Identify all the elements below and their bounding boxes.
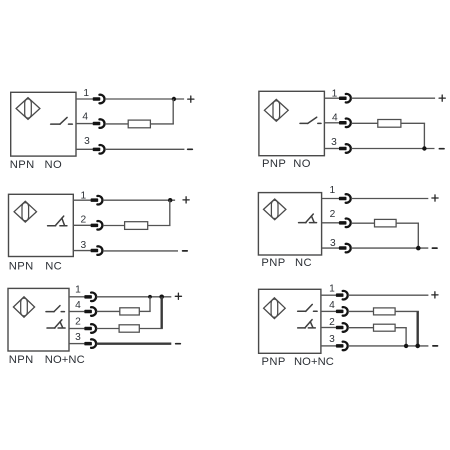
sensor symbol U3 (diamond with lens) bbox=[14, 201, 36, 222]
- supply terminal (D4) bbox=[432, 247, 437, 249]
wire dropper to node J4 bbox=[417, 223, 419, 248]
connector pin 2 (U3) bbox=[91, 221, 103, 230]
connector pin 3 (U5) bbox=[84, 339, 96, 348]
connector pin 4 (U2) bbox=[339, 119, 351, 128]
sensor symbol U5 (diamond with lens) bbox=[13, 297, 34, 317]
wire riser RL5a to node J5a bbox=[149, 297, 151, 312]
wire U6 pin1 stub bbox=[321, 294, 336, 296]
- supply terminal (D5) bbox=[176, 343, 181, 345]
wire RL4 to dropper bbox=[396, 222, 419, 224]
svg-text:3: 3 bbox=[75, 332, 81, 343]
connector pin 1 (U3) bbox=[91, 196, 103, 205]
wire U2 pin4 stub bbox=[324, 122, 339, 124]
wire U3 pin2 stub bbox=[73, 224, 90, 226]
svg-text:2: 2 bbox=[329, 317, 335, 328]
node junction J4 (pin3/load) bbox=[416, 246, 421, 251]
wire dropper RL6b to node J6a bbox=[405, 328, 407, 346]
node junction J5a (pin1/RL5a) bbox=[148, 295, 152, 299]
svg-text:NPN: NPN bbox=[10, 159, 35, 171]
wire RL6b to dropper bbox=[395, 327, 407, 329]
svg-text:4: 4 bbox=[332, 113, 338, 124]
svg-text:NC: NC bbox=[295, 257, 312, 269]
wire U6 pin3 stub bbox=[321, 345, 336, 347]
connector pin 2 (U5) bbox=[84, 324, 96, 333]
NC contact switch S3 bbox=[48, 216, 67, 226]
sensor symbol U6 (diamond with lens) bbox=[264, 298, 286, 319]
wire U1 pin4 stub bbox=[76, 123, 93, 125]
connector pin 4 (U5) bbox=[84, 307, 96, 316]
svg-text:PNP: PNP bbox=[262, 356, 286, 368]
NO contact switch S2 bbox=[300, 117, 321, 123]
+ supply terminal (D2) bbox=[439, 95, 445, 101]
load resistor RL2 bbox=[378, 120, 401, 128]
svg-text:3: 3 bbox=[80, 240, 86, 251]
connector pin 3 (U2) bbox=[339, 144, 351, 153]
wire pin2 to load RL5b bbox=[97, 328, 120, 330]
svg-text:4: 4 bbox=[75, 300, 81, 311]
load resistor RL5b bbox=[119, 325, 139, 332]
wire RL2 to dropper bbox=[401, 122, 425, 124]
wire RL6a to dropper bbox=[395, 310, 419, 312]
svg-text:PNP: PNP bbox=[262, 158, 286, 170]
wire U4 pin3 stub bbox=[322, 247, 339, 249]
svg-text:NO: NO bbox=[293, 158, 311, 170]
sensor box U6 (PNP NO+NC) bbox=[259, 289, 321, 353]
wire pin2 to load RL4 bbox=[351, 222, 375, 224]
NO contact switch S6a bbox=[298, 304, 317, 311]
node junction J3 (pin1/load) bbox=[168, 198, 172, 202]
wire pin3 to - terminal (D6) bbox=[348, 345, 428, 347]
sensor box U2 (PNP NO) bbox=[259, 91, 325, 155]
svg-text:4: 4 bbox=[82, 112, 88, 123]
+ supply terminal (D4) bbox=[432, 195, 438, 201]
connector pin 2 (U6) bbox=[336, 323, 348, 332]
svg-text:1: 1 bbox=[329, 185, 335, 196]
+ supply terminal (D6) bbox=[432, 292, 438, 298]
connector pin 2 (U4) bbox=[339, 219, 351, 228]
wire pin1 to + terminal (D6) bbox=[348, 294, 428, 296]
node junction J5b (pin1/RL5b) bbox=[159, 295, 164, 300]
svg-text:NO: NO bbox=[45, 159, 63, 171]
wire pin4 to load RL1 bbox=[105, 123, 128, 125]
svg-text:PNP: PNP bbox=[261, 257, 285, 269]
wire pin1 to + terminal bbox=[105, 98, 184, 100]
svg-text:4: 4 bbox=[329, 300, 335, 311]
+ supply terminal (D3) bbox=[183, 197, 189, 203]
+ supply terminal (D1) bbox=[188, 96, 194, 102]
wire U2 pin1 stub bbox=[324, 97, 339, 99]
node junction J6a (pin3/RL6b) bbox=[404, 344, 408, 348]
wire U1 pin3 stub bbox=[76, 148, 93, 150]
connector pin 1 (U4) bbox=[339, 194, 351, 203]
NC contact switch S5b bbox=[47, 320, 65, 328]
wire U5 pin4 stub bbox=[69, 311, 84, 313]
svg-text:2: 2 bbox=[75, 317, 81, 328]
- supply terminal (D2) bbox=[439, 148, 444, 150]
wire pin2 to load RL6b bbox=[348, 327, 374, 329]
sensor box U3 (NPN NC) bbox=[9, 194, 74, 256]
wire U5 pin2 stub bbox=[69, 328, 84, 330]
svg-text:3: 3 bbox=[329, 334, 335, 345]
svg-text:1: 1 bbox=[329, 284, 335, 295]
load resistor RL3 bbox=[125, 222, 148, 230]
wire U4 pin2 stub bbox=[322, 222, 339, 224]
wire riser to node J1 bbox=[172, 99, 174, 124]
wire riser RL5b to node J5b (thick) bbox=[160, 297, 162, 329]
svg-text:NO+NC: NO+NC bbox=[45, 354, 85, 366]
wire U5 pin1 stub bbox=[69, 296, 84, 298]
NO contact switch S1 bbox=[51, 117, 73, 124]
wire pin4 to load RL5a bbox=[97, 310, 120, 312]
wire pin4 to load RL6a bbox=[348, 310, 374, 312]
sensor box U5 (NPN NO+NC) bbox=[8, 288, 69, 351]
node junction J1 (pin1/load) bbox=[172, 97, 176, 101]
wire pin1 to + terminal (D2) bbox=[351, 97, 435, 99]
wire U2 pin3 stub bbox=[324, 148, 339, 150]
wire U4 pin1 stub bbox=[322, 198, 339, 200]
svg-text:2: 2 bbox=[330, 209, 336, 220]
sensor box U4 (PNP NC) bbox=[258, 193, 321, 255]
wire pin2 to load RL3 bbox=[103, 225, 125, 227]
svg-text:NC: NC bbox=[45, 261, 62, 273]
svg-text:1: 1 bbox=[83, 88, 89, 99]
wire pin1 to + terminal (D4) bbox=[351, 198, 428, 200]
wire U3 pin1 stub bbox=[73, 199, 90, 201]
svg-text:2: 2 bbox=[80, 215, 86, 226]
wire U1 pin1 stub bbox=[76, 98, 93, 100]
connector pin 3 (U6) bbox=[336, 342, 348, 351]
svg-text:3: 3 bbox=[331, 137, 337, 148]
- supply terminal (D6) bbox=[433, 345, 438, 347]
svg-text:NPN: NPN bbox=[9, 261, 34, 273]
svg-text:NO+NC: NO+NC bbox=[294, 356, 334, 368]
node junction J6b (pin3/RL6a) bbox=[415, 344, 420, 349]
load resistor RL4 bbox=[375, 219, 397, 227]
wire pin1 to + terminal (D3) bbox=[103, 199, 175, 201]
sensor box U1 (NPN NO) bbox=[11, 92, 76, 156]
connector pin 3 (U1) bbox=[93, 145, 105, 154]
wire dropper RL6a to node J6b (thick) bbox=[417, 311, 419, 346]
wire dropper to node J2 bbox=[423, 123, 425, 148]
- supply terminal (D3) bbox=[183, 250, 188, 252]
NC contact switch S4 bbox=[299, 214, 317, 223]
wire pin3 to - terminal (D5, thick) bbox=[97, 343, 172, 345]
sensor symbol U2 (diamond with lens) bbox=[264, 99, 288, 121]
connector pin 1 (U2) bbox=[339, 94, 351, 103]
wire U3 pin3 stub bbox=[73, 250, 90, 252]
wire pin3 to - terminal (D3) bbox=[103, 250, 178, 252]
wire RL3 to riser bbox=[148, 225, 171, 227]
svg-text:1: 1 bbox=[75, 285, 81, 296]
wire pin3 to - terminal (D2) bbox=[351, 148, 434, 150]
wire RL5a to riser bbox=[139, 310, 150, 312]
load resistor RL5a bbox=[120, 308, 140, 315]
wire pin1 to + terminal (D5) bbox=[97, 296, 172, 298]
wire U5 pin3 stub bbox=[69, 343, 84, 345]
node junction J2 (pin3/load) bbox=[422, 146, 426, 150]
connector pin 1 (U6) bbox=[336, 291, 348, 300]
+ supply terminal (D5) bbox=[175, 293, 181, 299]
wire pin3 to - terminal (D4) bbox=[351, 247, 428, 249]
wire RL5b to riser bbox=[139, 328, 163, 330]
load resistor RL6a bbox=[374, 308, 396, 315]
connector pin 3 (U3) bbox=[91, 246, 103, 255]
wire pin3 to - terminal bbox=[105, 148, 184, 150]
load resistor RL6b bbox=[374, 324, 396, 331]
svg-text:3: 3 bbox=[84, 136, 90, 147]
connector pin 3 (U4) bbox=[339, 244, 351, 253]
load resistor RL1 bbox=[128, 120, 150, 128]
wire pin4 to load RL2 bbox=[351, 122, 378, 124]
svg-text:NPN: NPN bbox=[9, 354, 34, 366]
wire U6 pin2 stub bbox=[321, 327, 336, 329]
connector pin 1 (U5) bbox=[84, 293, 96, 302]
NC contact switch S6b bbox=[298, 320, 316, 328]
connector pin 4 (U6) bbox=[336, 307, 348, 316]
NO contact switch S5a bbox=[46, 306, 64, 312]
connector pin 4 (U1) bbox=[93, 119, 105, 128]
wire RL1 to riser bbox=[150, 123, 174, 125]
sensor symbol U1 (diamond with lens) bbox=[16, 98, 40, 120]
wire U6 pin4 stub bbox=[321, 310, 336, 312]
wire riser to node J3 bbox=[169, 200, 171, 225]
sensor symbol U4 (diamond with lens) bbox=[264, 199, 286, 220]
- supply terminal (D1) bbox=[188, 148, 193, 150]
connector pin 1 (U1) bbox=[93, 95, 105, 104]
